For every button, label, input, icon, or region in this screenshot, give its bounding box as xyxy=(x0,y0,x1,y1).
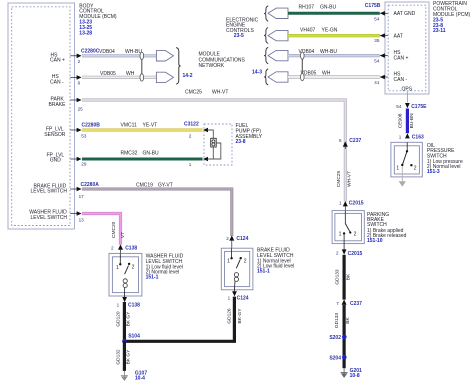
svg-text:C2280C: C2280C xyxy=(81,49,100,55)
connector C163 xyxy=(399,133,424,140)
svg-text:151-1: 151-1 xyxy=(146,275,159,281)
connector C124 (top of brake fluid switch) xyxy=(226,235,248,248)
svg-text:14-3: 14-3 xyxy=(252,69,262,75)
svg-text:10-8: 10-8 xyxy=(350,373,360,379)
svg-text:BK GY: BK GY xyxy=(126,311,132,326)
ground G201 xyxy=(341,368,362,379)
svg-text:BU-BN: BU-BN xyxy=(409,113,415,128)
svg-text:151-10: 151-10 xyxy=(367,238,383,244)
splice S202 xyxy=(329,335,346,342)
connector C3122 pin 2 xyxy=(184,122,208,139)
fuel pump assembly text xyxy=(236,123,263,145)
svg-text:1: 1 xyxy=(117,303,120,308)
washer fluid level switch box xyxy=(109,253,142,296)
svg-text:GD132: GD132 xyxy=(115,349,121,365)
BCM pin label FP_LVL GND xyxy=(47,152,65,163)
svg-text:C163: C163 xyxy=(412,135,424,141)
PCM pin AAT xyxy=(374,33,403,43)
svg-text:2: 2 xyxy=(226,236,229,241)
svg-text:35: 35 xyxy=(374,38,380,43)
svg-text:54: 54 xyxy=(396,104,402,109)
parking brake switch box xyxy=(332,211,364,244)
svg-text:23-5: 23-5 xyxy=(234,33,244,39)
svg-text:BK: BK xyxy=(345,317,351,324)
wire GD132 BK-GY (splice to ground) xyxy=(123,341,126,371)
svg-text:C237: C237 xyxy=(349,138,361,144)
svg-text:1: 1 xyxy=(227,259,230,265)
svg-text:C2280A: C2280A xyxy=(81,182,100,188)
svg-text:6: 6 xyxy=(78,80,81,85)
brace for VH407 pentagon xyxy=(264,28,268,44)
connector C237 (on CMC25) xyxy=(339,138,361,149)
svg-text:13: 13 xyxy=(79,217,85,222)
network connector pentagon (VDB04 left) xyxy=(156,51,173,61)
washer switch text xyxy=(146,254,184,281)
svg-text:2: 2 xyxy=(111,246,114,251)
svg-text:BK-GY: BK-GY xyxy=(237,308,243,324)
svg-text:VT: VT xyxy=(120,232,126,238)
connector C175E xyxy=(396,103,427,110)
svg-text:GND: GND xyxy=(50,158,62,164)
wire RMC32 GN-BU xyxy=(82,158,203,161)
svg-text:CAN -: CAN - xyxy=(50,79,64,85)
network connector pentagon (VDB05 left) xyxy=(156,72,173,82)
module BCM (Body Control Module) box xyxy=(8,3,75,229)
connector C237 (on GD133) xyxy=(336,299,362,306)
svg-text:2: 2 xyxy=(78,59,81,64)
svg-text:S204: S204 xyxy=(329,355,341,361)
connector C138 (bottom of washer switch) xyxy=(117,297,141,308)
svg-text:BRAKE: BRAKE xyxy=(49,102,67,108)
wire GD120 BK-GY xyxy=(123,302,126,340)
BCM pin label FP_LVL SENSOR xyxy=(44,127,66,138)
svg-text:VDB05WH: VDB05WH xyxy=(301,70,331,76)
svg-text:151-1: 151-1 xyxy=(257,269,270,275)
svg-text:1: 1 xyxy=(339,232,342,238)
svg-text:C124: C124 xyxy=(237,295,249,301)
connector C124 (bottom of brake fluid switch) xyxy=(228,291,249,301)
svg-text:54: 54 xyxy=(374,16,380,21)
network connector pentagon VDB04 right xyxy=(268,50,288,60)
oil switch ground lead xyxy=(401,166,403,181)
wire GD133 BK (upper segment) xyxy=(343,255,346,300)
svg-text:41: 41 xyxy=(374,80,380,85)
fuel pump assembly dashed box xyxy=(204,124,232,165)
connector C2015 (top of parking brake switch) xyxy=(339,200,364,210)
svg-text:S202: S202 xyxy=(329,335,341,341)
wire CMC20 VT (BCM to washer switch) xyxy=(82,214,121,245)
svg-text:1: 1 xyxy=(339,200,342,205)
svg-text:C3122: C3122 xyxy=(184,122,199,128)
svg-text:CAN +: CAN + xyxy=(50,58,65,64)
brace 14-2 xyxy=(176,48,180,85)
svg-text:WH-VT: WH-VT xyxy=(347,171,353,187)
module PCM (Powertrain Control Module) box xyxy=(385,2,429,94)
svg-text:2: 2 xyxy=(336,251,339,256)
svg-text:1: 1 xyxy=(396,165,399,171)
ground (oil pressure switch case) xyxy=(399,181,406,186)
wire VDB04 WH-BU (left segment, BCM to network arrow) xyxy=(82,54,157,57)
svg-text:29: 29 xyxy=(81,161,87,166)
splice S104 xyxy=(122,334,140,344)
wire VDB04 WH-BU (right segment) xyxy=(288,54,380,57)
svg-text:C175E: C175E xyxy=(411,104,427,110)
svg-text:AAT GND: AAT GND xyxy=(394,11,416,17)
BCM pin label HS CAN+ xyxy=(50,52,65,63)
svg-text:6: 6 xyxy=(339,138,342,143)
svg-text:23-11: 23-11 xyxy=(433,28,446,34)
svg-text:2: 2 xyxy=(244,258,247,264)
wire CMC19 GY-VT xyxy=(82,189,232,236)
svg-text:BK GY: BK GY xyxy=(126,349,132,364)
ground G107 xyxy=(121,371,147,382)
PCM title text xyxy=(433,1,471,34)
svg-text:2: 2 xyxy=(414,166,417,172)
network connector pentagon RH107 xyxy=(268,8,288,18)
network connector pentagon VDB05 right xyxy=(268,72,288,82)
connector C3122 pin 1 xyxy=(189,157,208,167)
svg-text:17: 17 xyxy=(79,194,85,199)
svg-text:2: 2 xyxy=(354,232,357,238)
brace for VDB04 right pentagon xyxy=(264,47,268,64)
svg-text:14-2: 14-2 xyxy=(183,73,193,79)
brake fluid switch internals xyxy=(227,248,247,291)
svg-text:C237: C237 xyxy=(350,301,362,307)
svg-text:GD133: GD133 xyxy=(335,269,341,285)
svg-text:13-28: 13-28 xyxy=(79,30,92,36)
svg-text:C175B: C175B xyxy=(365,3,381,9)
brake fluid level switch box xyxy=(221,248,253,290)
washer switch internals xyxy=(116,253,135,297)
BCM title text xyxy=(79,3,117,36)
svg-text:CE908: CE908 xyxy=(398,113,404,128)
svg-text:2: 2 xyxy=(132,264,135,270)
twisted pair symbol (right) xyxy=(301,52,305,81)
PCM pin OPS xyxy=(402,86,413,102)
oil pressure switch box xyxy=(391,142,422,177)
svg-text:CAN -: CAN - xyxy=(394,77,408,83)
splice S204 xyxy=(329,355,346,362)
connector C138 (top of washer switch) xyxy=(111,244,137,253)
svg-text:53: 53 xyxy=(81,133,87,138)
svg-text:1: 1 xyxy=(399,135,402,140)
svg-text:1: 1 xyxy=(116,265,119,271)
svg-text:151-3: 151-3 xyxy=(427,169,440,175)
wire VMC11 YE-VT xyxy=(82,128,203,131)
svg-text:C2280B: C2280B xyxy=(82,122,101,128)
svg-text:C2015: C2015 xyxy=(348,251,363,257)
svg-text:10-4: 10-4 xyxy=(135,376,145,382)
svg-text:23-8: 23-8 xyxy=(236,139,246,145)
svg-text:S104: S104 xyxy=(128,334,140,340)
wire RH107 GN-BU xyxy=(288,12,380,15)
svg-text:2: 2 xyxy=(189,134,192,139)
svg-text:C124: C124 xyxy=(236,236,248,242)
oil pressure switch text xyxy=(427,143,463,175)
wire VDB05 WH (right segment) xyxy=(288,75,380,78)
wire VH407 YE-GN xyxy=(288,34,380,37)
svg-text:AAT: AAT xyxy=(394,34,403,40)
svg-text:CMC25: CMC25 xyxy=(336,171,342,188)
BCM pin arrows and pin numbers xyxy=(70,54,87,223)
svg-text:BK: BK xyxy=(346,273,352,280)
svg-text:LEVEL SWITCH: LEVEL SWITCH xyxy=(31,189,68,195)
wire CMC25 WH-VT (horizontal + vertical) xyxy=(82,100,345,202)
fuel pump internal wiring xyxy=(208,130,221,159)
svg-text:CAN +: CAN + xyxy=(394,55,409,61)
svg-text:NETWORK: NETWORK xyxy=(199,63,225,69)
BCM pin label PARK BRAKE xyxy=(49,97,67,108)
label ELECTRONIC ENGINE CONTROLS xyxy=(226,17,259,39)
BCM pin label BRAKE FLUID LEVEL SWITCH xyxy=(31,183,68,194)
svg-text:GD120: GD120 xyxy=(115,311,121,327)
svg-text:GD133: GD133 xyxy=(334,313,340,329)
wire GD126 BK-GY (brake switch to splice) xyxy=(124,297,234,342)
PCM pin HS CAN+ xyxy=(374,50,408,63)
wire GD133 BK (lower segment) xyxy=(343,305,346,368)
parking brake switch text xyxy=(367,212,407,244)
wire CE908 BU-BN xyxy=(406,109,409,134)
brake fluid switch text xyxy=(257,248,294,275)
svg-text:OPS: OPS xyxy=(402,86,413,92)
brace for VDB05 right pentagon xyxy=(264,69,268,85)
network connector pentagon VH407 xyxy=(268,30,288,40)
svg-text:CMC20: CMC20 xyxy=(111,221,117,238)
parking brake switch internals xyxy=(339,211,357,244)
PCM pin HS CAN- xyxy=(374,72,407,86)
PCM pin AAT GND xyxy=(374,11,415,21)
svg-text:1: 1 xyxy=(228,295,231,300)
BCM pin label WASHER FLUID LEVEL SWITCH xyxy=(29,210,67,221)
svg-text:C138: C138 xyxy=(128,302,140,308)
svg-text:25: 25 xyxy=(78,106,84,111)
svg-text:7: 7 xyxy=(336,301,339,306)
twisted pair symbol (left) xyxy=(140,52,144,81)
svg-text:SENSOR: SENSOR xyxy=(44,132,66,138)
BCM pin label HS CAN- xyxy=(50,74,64,85)
connector C2015 (bottom of parking brake switch) xyxy=(336,244,363,257)
svg-text:C2015: C2015 xyxy=(349,200,364,206)
wire VDB05 WH (left segment) xyxy=(82,76,157,79)
oil pressure switch internals xyxy=(396,142,416,171)
brace for RH107 pentagon xyxy=(264,6,268,21)
label MODULE COMMUNICATIONS NETWORK xyxy=(199,52,246,69)
svg-text:GD126: GD126 xyxy=(226,308,232,324)
svg-text:1: 1 xyxy=(189,162,192,167)
svg-text:LEVEL SWITCH: LEVEL SWITCH xyxy=(31,215,68,221)
svg-text:54: 54 xyxy=(374,58,380,63)
svg-text:C138: C138 xyxy=(125,246,137,252)
